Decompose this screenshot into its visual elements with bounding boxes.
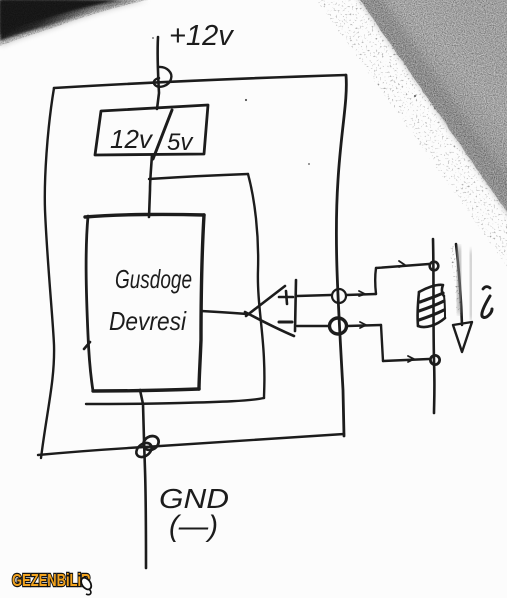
svg-text:Gusdoge: Gusdoge <box>115 264 192 294</box>
svg-text:12v: 12v <box>110 124 154 154</box>
svg-text:GEZENBiLiR: GEZENBiLiR <box>12 571 90 591</box>
svg-text:+12v: +12v <box>169 20 234 52</box>
svg-text:5v: 5v <box>167 129 194 156</box>
svg-text:Devresi: Devresi <box>109 306 187 336</box>
svg-text:(—): (—) <box>169 510 218 543</box>
